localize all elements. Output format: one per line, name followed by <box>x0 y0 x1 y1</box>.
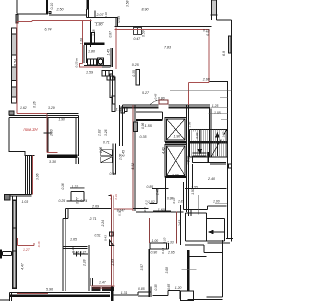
svg-text:0.80: 0.80 <box>158 96 165 100</box>
svg-text:3.30: 3.30 <box>49 160 56 164</box>
svg-text:1.59: 1.59 <box>86 71 93 75</box>
svg-text:6.54: 6.54 <box>14 59 18 66</box>
svg-text:1.47: 1.47 <box>99 281 106 285</box>
svg-text:1.80: 1.80 <box>96 22 103 26</box>
svg-text:0.65: 0.65 <box>167 284 171 290</box>
svg-text:1.59: 1.59 <box>116 107 125 112</box>
svg-text:0.87: 0.87 <box>109 31 113 38</box>
svg-text:1.68: 1.68 <box>92 29 96 36</box>
svg-text:1.00: 1.00 <box>152 239 159 243</box>
svg-text:1.02: 1.02 <box>148 200 155 204</box>
svg-text:0.43: 0.43 <box>104 235 108 241</box>
svg-text:0.66: 0.66 <box>73 251 79 255</box>
svg-text:0.28: 0.28 <box>109 194 113 200</box>
svg-text:2.28: 2.28 <box>83 259 87 267</box>
svg-text:2.81: 2.81 <box>177 200 184 204</box>
svg-text:6.9: 6.9 <box>222 51 226 56</box>
svg-text:0.10: 0.10 <box>161 248 165 254</box>
svg-text:2.80: 2.80 <box>186 159 190 166</box>
svg-text:1.48: 1.48 <box>156 189 160 195</box>
svg-text:0.1: 0.1 <box>206 31 210 36</box>
svg-text:2.00: 2.00 <box>119 154 123 161</box>
svg-text:0.51: 0.51 <box>95 234 101 238</box>
svg-text:2.89: 2.89 <box>110 259 114 267</box>
svg-text:2.65: 2.65 <box>167 250 175 254</box>
svg-text:3.58: 3.58 <box>125 0 129 7</box>
svg-text:1.90: 1.90 <box>58 118 65 122</box>
svg-text:1.50: 1.50 <box>191 188 195 194</box>
svg-text:5.32: 5.32 <box>131 163 135 170</box>
svg-text:1.33: 1.33 <box>167 240 174 244</box>
svg-text:1.27: 1.27 <box>23 248 30 252</box>
svg-text:2.71: 2.71 <box>89 217 97 221</box>
svg-text:3.57: 3.57 <box>140 264 144 271</box>
svg-text:3.26: 3.26 <box>104 129 108 136</box>
svg-text:0.10: 0.10 <box>172 197 176 203</box>
svg-text:пом.3Н: пом.3Н <box>24 127 39 132</box>
svg-text:1.28: 1.28 <box>80 38 84 45</box>
svg-text:0.16: 0.16 <box>33 101 37 107</box>
svg-text:7.83: 7.83 <box>164 46 171 50</box>
svg-text:0.45: 0.45 <box>154 93 158 99</box>
svg-text:4.40: 4.40 <box>161 147 165 154</box>
svg-text:0.47: 0.47 <box>134 37 141 41</box>
svg-text:0.24: 0.24 <box>110 172 117 176</box>
svg-text:1.65: 1.65 <box>70 237 77 241</box>
svg-text:0.25 m: 0.25 m <box>75 58 79 68</box>
svg-text:0.10: 0.10 <box>163 237 167 243</box>
svg-text:5.27: 5.27 <box>142 91 150 95</box>
svg-text:1.55: 1.55 <box>145 124 153 128</box>
svg-text:1.45: 1.45 <box>107 49 111 56</box>
svg-text:2.60: 2.60 <box>202 77 210 81</box>
svg-text:0.10: 0.10 <box>104 12 108 18</box>
svg-text:1.05: 1.05 <box>214 111 221 115</box>
svg-text:0.25: 0.25 <box>59 199 66 203</box>
svg-text:0.59: 0.59 <box>117 16 121 23</box>
svg-text:0.16: 0.16 <box>61 183 65 189</box>
svg-text:1.90: 1.90 <box>172 173 179 177</box>
svg-text:0.37: 0.37 <box>80 251 86 255</box>
svg-text:2.40: 2.40 <box>207 177 215 181</box>
svg-text:2.63: 2.63 <box>178 220 182 227</box>
svg-text:1.06: 1.06 <box>99 147 103 153</box>
svg-text:0.16: 0.16 <box>118 210 122 216</box>
svg-text:3.29: 3.29 <box>48 106 55 110</box>
svg-text:1.31: 1.31 <box>121 291 128 295</box>
svg-text:0.10: 0.10 <box>50 3 54 10</box>
svg-text:0.35: 0.35 <box>140 135 147 139</box>
svg-text:1.90: 1.90 <box>174 135 181 139</box>
svg-text:0.85: 0.85 <box>138 287 145 291</box>
svg-text:0.90: 0.90 <box>195 132 199 138</box>
svg-text:0.35: 0.35 <box>132 70 136 77</box>
svg-text:1.62: 1.62 <box>20 106 27 110</box>
svg-text:1.98: 1.98 <box>187 121 191 127</box>
svg-text:1.03: 1.03 <box>22 200 29 204</box>
svg-text:2.00: 2.00 <box>50 129 54 137</box>
svg-text:2.24: 2.24 <box>101 220 105 228</box>
svg-text:1.00: 1.00 <box>213 199 220 203</box>
svg-text:0.74: 0.74 <box>80 199 87 203</box>
svg-text:0.9: 0.9 <box>143 207 147 212</box>
svg-text:0.90: 0.90 <box>151 250 158 254</box>
svg-text:1.60: 1.60 <box>158 208 165 212</box>
svg-text:8.90: 8.90 <box>142 8 149 12</box>
svg-text:0.98: 0.98 <box>141 123 145 129</box>
svg-text:2.50: 2.50 <box>56 8 64 12</box>
svg-text:3.68: 3.68 <box>165 267 169 274</box>
svg-text:4.47: 4.47 <box>21 263 25 270</box>
svg-text:6.74: 6.74 <box>45 28 52 32</box>
svg-text:0.31: 0.31 <box>114 194 118 200</box>
svg-text:0.59: 0.59 <box>142 30 146 37</box>
svg-text:1.82: 1.82 <box>98 129 102 136</box>
svg-text:0.16: 0.16 <box>37 241 41 247</box>
svg-text:0.77: 0.77 <box>76 197 80 203</box>
svg-text:1.80: 1.80 <box>88 50 95 54</box>
svg-text:0.71: 0.71 <box>103 141 110 145</box>
svg-text:5.96: 5.96 <box>46 288 53 292</box>
svg-text:1.20: 1.20 <box>175 286 182 290</box>
svg-text:3.06: 3.06 <box>36 173 40 180</box>
svg-text:0.2: 0.2 <box>145 200 149 205</box>
svg-text:2.69: 2.69 <box>91 204 99 208</box>
svg-text:0.85: 0.85 <box>147 185 154 189</box>
svg-text:1.20: 1.20 <box>222 131 226 137</box>
svg-text:0.25: 0.25 <box>132 63 139 67</box>
svg-text:0.35: 0.35 <box>154 284 158 290</box>
